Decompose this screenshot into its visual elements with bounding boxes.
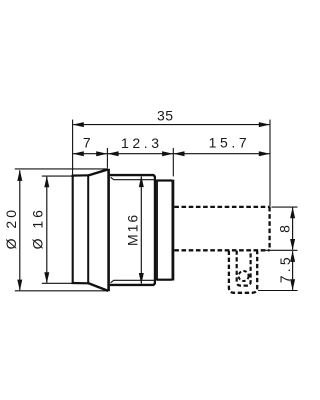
part: bezel top front edge [72,174,89,177]
svg-text:7.5: 7.5 [277,254,293,283]
svg-text:Ø 16: Ø 16 [29,207,45,249]
part: bezel front face [72,175,74,284]
hidden body top (dashed) [174,206,269,208]
part: thread major top [110,175,155,177]
svg-text:8: 8 [276,225,292,233]
part: thread major bottom [110,283,155,285]
extension line tick 7/12.3 boundary [106,148,108,168]
hidden body bottom (dashed) [174,249,269,251]
part: thread root top (thin) [111,177,154,179]
svg-text:Ø 20: Ø 20 [3,207,19,249]
part: collar left face [156,180,158,280]
solder lug inner (dashed) [237,251,251,286]
part: bezel ring/cone boundary edge [87,175,89,284]
dimension row 7 / 12.3 / 15.7 line [73,151,270,156]
extension lines right side [272,206,298,208]
extension line tick 12.3/15.7 boundary [172,148,174,177]
dimension D16 [44,176,49,283]
part: bezel bottom front edge [72,282,89,284]
svg-text:15.7: 15.7 [209,135,251,151]
extension lines D20 [15,168,108,170]
part: collar right face [171,180,174,281]
solder lug outer (dashed) [229,251,257,293]
extension lines D16 [42,175,73,177]
part: collar top [156,179,172,181]
extension line right (x=270 down to hidden body) [269,120,271,207]
hidden body right edge (dashed) [268,207,270,250]
part: bezel cone top [89,169,109,175]
dimension 7.5 [290,251,295,291]
svg-text:12.3: 12.3 [121,135,163,151]
part: bezel cone bottom [89,283,109,291]
part: thread root bottom (thin) [111,280,154,282]
part: thread end face [154,176,156,283]
svg-text:7: 7 [83,135,91,151]
dimension D20 [17,170,22,291]
solder lug hole (dashed circle) [239,271,249,281]
svg-text:M16: M16 [125,213,141,246]
part: collar bottom [156,279,172,281]
svg-text:35: 35 [157,108,174,124]
part: bezel back face [107,169,110,291]
extension line left (x=72.6 from dim rows down to part) [72,120,74,175]
dimension 35 line [73,122,270,127]
dimension M16 [139,176,144,284]
dimension 8 [290,207,295,250]
